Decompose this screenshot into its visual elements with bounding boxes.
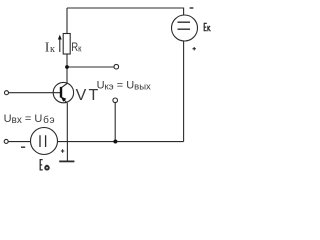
svg-text:Rк: Rк: [71, 41, 81, 54]
svg-text:Uкэ = Uвых: Uкэ = Uвых: [97, 79, 151, 92]
svg-text:Uвх = Uбэ: Uвх = Uбэ: [4, 113, 56, 126]
